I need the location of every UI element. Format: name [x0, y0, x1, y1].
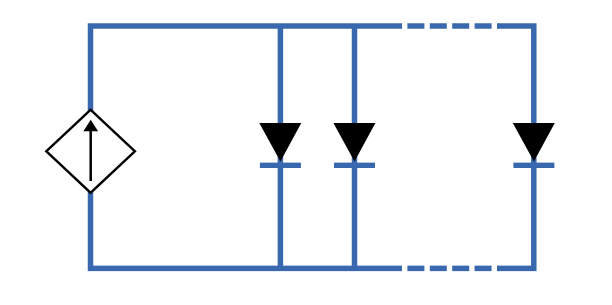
- wire: dashed top rail segment (continuation dots): [385, 23, 499, 29]
- wire: branch 2 vertical (diode D2 branch): [352, 26, 358, 268]
- wire: dashed bottom rail segment (continuation dots): [385, 266, 499, 272]
- wire: bottom-left solid elbow (left rail lower + bottom rail left): [91, 192, 386, 268]
- current source I1 (diamond symbol with upward arrow): [46, 110, 135, 193]
- diode D1 (triangle + cathode bar): [259, 123, 301, 165]
- wire: branch 1 vertical (diode D1 branch): [278, 26, 284, 268]
- wire: top-left solid elbow (top rail left + left rail upper): [91, 26, 386, 111]
- diode D3 (triangle + cathode bar): [513, 123, 555, 165]
- diode D2 (triangle + cathode bar): [333, 123, 375, 165]
- wire: right solid elbow (right rail + stubs, diode D3 branch): [498, 26, 534, 268]
